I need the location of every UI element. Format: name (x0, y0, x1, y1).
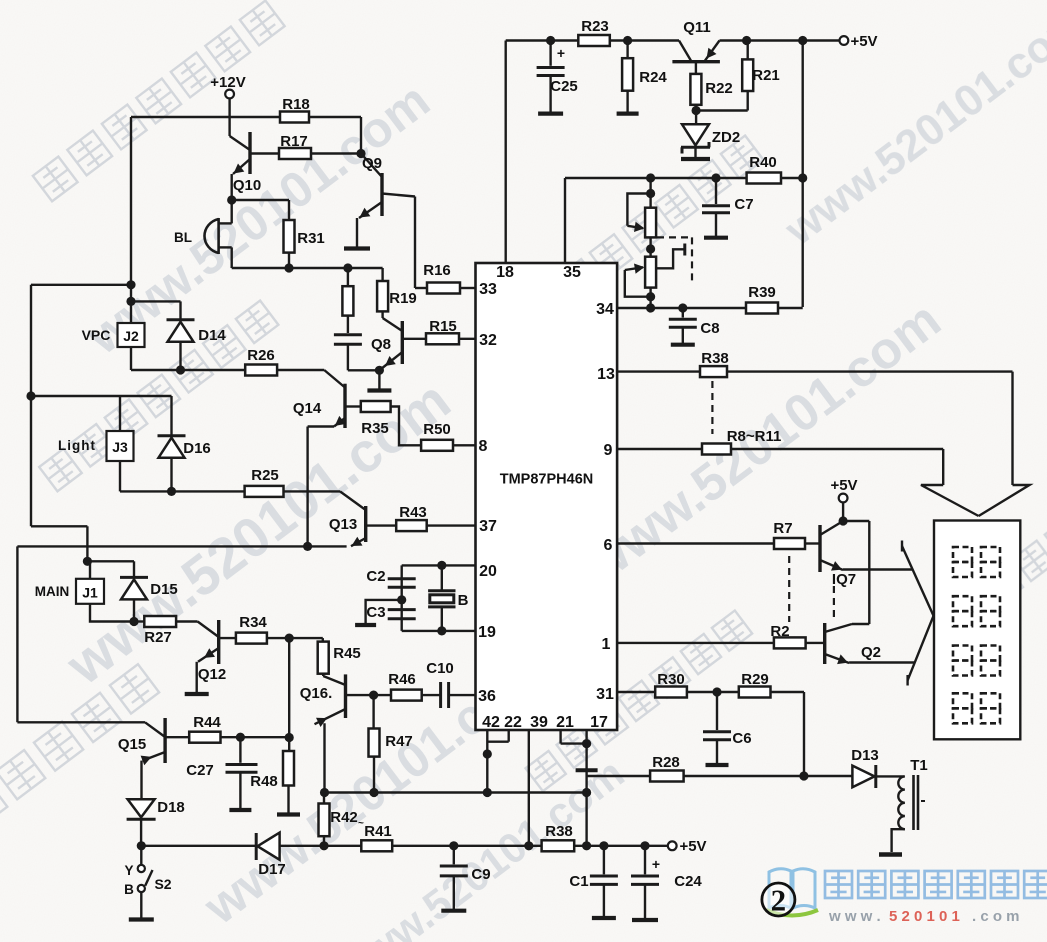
svg-text:19: 19 (478, 624, 496, 641)
resistor R2 (617, 623, 825, 648)
node R17-Q9 (356, 149, 365, 158)
svg-text:9: 9 (604, 442, 613, 459)
svg-text:ZD2: ZD2 (712, 129, 740, 146)
resistor R7 (617, 520, 820, 549)
svg-text:J3: J3 (112, 439, 128, 455)
transistor Q15 (118, 718, 189, 765)
wire mid rail 792 (320, 788, 587, 797)
pin 31 label (596, 686, 614, 703)
svg-text:~: ~ (358, 818, 364, 829)
lamp BL (174, 200, 232, 268)
svg-text:R48: R48 (250, 773, 278, 790)
arrow to display left (902, 541, 934, 686)
svg-text:R21: R21 (752, 67, 780, 84)
svg-text:J2: J2 (123, 328, 139, 344)
resistor R39 (746, 284, 803, 314)
svg-text:1: 1 (602, 636, 611, 653)
pin 17 label (590, 714, 608, 731)
svg-text:C10: C10 (426, 660, 454, 677)
wire left main vertical (126, 117, 135, 306)
transistor Q14 (293, 384, 346, 428)
svg-text:C6: C6 (732, 730, 751, 747)
svg-text:35: 35 (563, 264, 581, 281)
capacitor C10 (426, 660, 475, 708)
svg-text:20: 20 (479, 563, 497, 580)
svg-text:R41: R41 (364, 823, 392, 840)
pin 42 label (482, 714, 500, 731)
wire loop rail (17, 546, 346, 737)
wire Q9 emitter-gnd (344, 218, 370, 249)
resistor R38 pin13 (617, 350, 1012, 377)
pin 35 label (563, 264, 581, 281)
svg-text:TMP87PH46N: TMP87PH46N (500, 472, 593, 488)
svg-text:BL: BL (174, 230, 192, 245)
trimmer VR1 (627, 173, 656, 253)
display digits (953, 547, 1000, 723)
svg-text:D18: D18 (157, 799, 185, 816)
resistor R28 (650, 754, 852, 782)
svg-text:R28: R28 (652, 754, 680, 771)
resistor R29 (739, 671, 804, 776)
wire dashed R38 link (711, 381, 713, 434)
svg-text:18: 18 (496, 264, 514, 281)
wire pins21-17 (561, 730, 598, 846)
svg-text:+5V: +5V (679, 838, 706, 855)
resistor R27 (134, 616, 219, 646)
wire Light branch (26, 391, 171, 400)
wire +12V stub (228, 98, 230, 136)
svg-text:R46: R46 (388, 671, 416, 688)
pin 1 label (602, 636, 611, 653)
svg-text:Q15: Q15 (118, 736, 146, 753)
svg-text:C1: C1 (569, 873, 588, 890)
svg-text:37: 37 (479, 518, 497, 535)
transistor Q10 (230, 132, 262, 194)
svg-text:+: + (557, 45, 565, 61)
svg-text:B: B (458, 592, 469, 609)
terminal +12V (210, 74, 245, 98)
svg-text:R38: R38 (545, 823, 573, 840)
svg-text:Q10: Q10 (233, 177, 261, 194)
resistor R45 (289, 638, 361, 685)
pin 6 label (604, 537, 613, 554)
svg-text:8: 8 (479, 438, 488, 455)
svg-text:Q11: Q11 (683, 19, 711, 36)
svg-text:R8~R11: R8~R11 (727, 428, 782, 445)
trimmer VR2 (625, 244, 685, 309)
svg-text:R45: R45 (333, 645, 361, 662)
pin 18 label (496, 264, 514, 281)
capacitor C27 (186, 737, 257, 810)
capacitor C2 (366, 568, 415, 605)
node R22-ZD2 (692, 91, 748, 115)
svg-text:R50: R50 (423, 421, 451, 438)
svg-text:21: 21 (556, 714, 574, 731)
svg-text:R26: R26 (247, 347, 275, 364)
resistor R30 (617, 671, 687, 698)
svg-text:+5V: +5V (850, 33, 877, 50)
wire Q16 emitter (323, 723, 325, 792)
pin 34 label (596, 301, 614, 318)
pin 39 label (530, 714, 548, 731)
svg-text:R15: R15 (429, 318, 457, 335)
node J1 top (83, 557, 134, 566)
pin 8 label (479, 438, 488, 455)
svg-text:R18: R18 (282, 96, 310, 113)
capacitor C1 (569, 846, 617, 918)
resistor R31 (284, 220, 325, 268)
wire pin20 rail (402, 561, 476, 631)
resistor R22 (690, 62, 732, 111)
svg-text:Y: Y (124, 863, 133, 878)
pin 32 label (479, 332, 497, 349)
capacitor C9 (440, 846, 491, 911)
svg-text:22: 22 (504, 714, 522, 731)
diode D13 (851, 747, 904, 788)
svg-text:Q13: Q13 (329, 516, 357, 533)
svg-text:D15: D15 (150, 581, 178, 598)
wire pin34 rail (617, 303, 746, 312)
resistor R24 (617, 36, 668, 114)
node Q10-BL-R31 (227, 195, 289, 220)
svg-text:R27: R27 (144, 629, 172, 646)
svg-text:C2: C2 (366, 568, 385, 585)
arrow to display top (921, 485, 1029, 516)
transistor Q13 (329, 506, 366, 546)
resistor R23 (578, 18, 610, 46)
logo 520101 (762, 869, 1047, 925)
wire rail2 (565, 173, 807, 263)
svg-text:J1: J1 (82, 585, 98, 601)
svg-text:36: 36 (478, 688, 496, 705)
wire dashed driver link2 (833, 586, 835, 618)
svg-text:13: 13 (597, 366, 615, 383)
transistor Q8 (371, 311, 402, 369)
wire Q15 emitter (140, 761, 142, 800)
node R30-R29 (687, 687, 739, 696)
capacitor C6 (703, 692, 752, 765)
svg-text:VPC: VPC (82, 327, 111, 343)
diode D17 (256, 833, 361, 878)
svg-text:R44: R44 (193, 714, 221, 731)
display DS1 (934, 521, 1020, 740)
terminal +5V mid (830, 477, 857, 521)
svg-text:39: 39 (530, 714, 548, 731)
pin 21 label (556, 714, 574, 731)
switch S2 (124, 846, 172, 920)
wire right bus (802, 41, 804, 308)
terminal +5V top (798, 33, 877, 50)
wire dashed trimmer link (657, 237, 692, 284)
transistor Q12 (198, 620, 236, 683)
diode D15 (120, 561, 178, 626)
svg-text:R24: R24 (639, 69, 667, 86)
svg-text:. c o m: . c o m (972, 908, 1020, 925)
svg-text:R17: R17 (280, 133, 308, 150)
wire top-left rail (131, 117, 361, 154)
svg-text:C8: C8 (700, 320, 719, 337)
capacitor C25 (537, 36, 578, 114)
resistor R26 (245, 347, 345, 388)
resistor R16 (423, 262, 475, 294)
resistor R15 (402, 318, 475, 344)
svg-text:6: 6 (604, 537, 613, 554)
svg-text:S2: S2 (154, 876, 171, 892)
svg-text:R2: R2 (770, 623, 789, 640)
svg-text:R47: R47 (385, 733, 413, 750)
svg-text:T1: T1 (910, 757, 928, 774)
svg-text:R40: R40 (749, 154, 777, 171)
svg-text:C9: C9 (471, 866, 490, 883)
resistor R46 (374, 671, 440, 701)
pin 9 label (604, 442, 613, 459)
svg-text:34: 34 (596, 301, 614, 318)
svg-text:R42: R42 (330, 809, 358, 826)
svg-text:B: B (124, 882, 134, 897)
svg-text:42: 42 (482, 714, 500, 731)
svg-text:D16: D16 (183, 440, 211, 457)
svg-text:MAIN: MAIN (35, 584, 70, 599)
resistor R41 (361, 823, 541, 851)
svg-text:IQ7: IQ7 (832, 571, 856, 588)
wire Q10 emitter (230, 174, 232, 200)
resistor R20 (342, 268, 353, 316)
svg-text:R25: R25 (251, 467, 279, 484)
wire +5V top rail (506, 39, 840, 41)
resistor R48 (250, 738, 300, 815)
capacitor C7 (702, 173, 754, 237)
wire BL bottom rail (232, 263, 383, 281)
svg-text:R31: R31 (297, 230, 325, 247)
pin 36 label (478, 688, 496, 705)
wire Q12 emitter-gnd (185, 662, 209, 694)
svg-text:C7: C7 (734, 196, 753, 213)
svg-text:33: 33 (479, 281, 497, 298)
svg-text:R30: R30 (657, 671, 685, 688)
svg-text:C3: C3 (366, 604, 385, 621)
resistor R18 (280, 96, 310, 123)
pin 33 label (479, 281, 497, 298)
node Q8 emitter (367, 366, 391, 391)
svg-text:17: 17 (590, 714, 608, 731)
capacitor C21 (334, 316, 380, 371)
transistor Q7 (820, 516, 913, 588)
resistor R40 (747, 154, 781, 184)
svg-text:D13: D13 (851, 747, 879, 764)
resistor R50 (421, 421, 475, 451)
wire Q7-Q2 collector bus (843, 521, 869, 624)
transistor Q2 (825, 623, 915, 664)
capacitor C8 (669, 308, 720, 345)
wire pin19 rail (402, 626, 476, 635)
crystal B (428, 565, 468, 631)
transistor Q16 (300, 674, 374, 727)
svg-text:31: 31 (596, 686, 614, 703)
svg-text:R43: R43 (399, 504, 427, 521)
svg-text:Q2: Q2 (861, 644, 881, 661)
svg-text:R7: R7 (773, 520, 792, 537)
svg-text:Light: Light (58, 438, 96, 453)
svg-text:R23: R23 (581, 18, 609, 35)
svg-text:Q8: Q8 (371, 336, 391, 353)
resistor R17 (251, 133, 361, 159)
capacitor C24 (631, 846, 702, 920)
pin 37 label (479, 518, 497, 535)
svg-text:Q16.: Q16. (300, 685, 333, 702)
svg-text:32: 32 (479, 332, 497, 349)
pin 22 label (504, 714, 522, 731)
zener ZD2 (681, 111, 740, 160)
resistor R8~R11 (617, 428, 943, 455)
pin 20 label (479, 563, 497, 580)
resistor R44 (189, 714, 289, 743)
svg-text:5 2 0 1 0 1: 5 2 0 1 0 1 (889, 908, 960, 925)
svg-text:w w w .: w w w . (828, 908, 881, 925)
wire R28 rail (587, 775, 651, 777)
connector J3 Light (58, 396, 134, 491)
svg-text:R35: R35 (361, 420, 389, 437)
wire Q9 collector (415, 197, 427, 289)
pin 13 label (597, 366, 615, 383)
transistor Q11 (672, 19, 720, 62)
connector J2 VPC (82, 301, 145, 370)
svg-text:Q9: Q9 (362, 155, 382, 172)
transformer T1 (879, 757, 928, 855)
terminal +5V bottom (668, 838, 707, 855)
wire VPC branch (31, 285, 131, 562)
svg-text:+12V: +12V (210, 74, 245, 91)
resistor R19 (377, 281, 417, 311)
svg-text:Q14: Q14 (293, 400, 322, 417)
svg-text:R34: R34 (239, 614, 267, 631)
pin 19 label (478, 624, 496, 641)
wire R34-R44 vertical (285, 634, 294, 743)
wire dashed driver link1 (788, 556, 790, 622)
IC U1 TMP87PH46N (476, 263, 618, 730)
diode D18 (127, 799, 185, 850)
svg-text:2: 2 (771, 883, 787, 918)
wire R25 rail (120, 487, 245, 496)
svg-text:R16: R16 (423, 262, 451, 279)
svg-text:R22: R22 (705, 80, 733, 97)
svg-text:C27: C27 (186, 762, 214, 779)
svg-text:R19: R19 (389, 290, 417, 307)
wire pin39 (528, 730, 530, 846)
resistor R47 (369, 695, 413, 792)
resistor R35 (345, 401, 421, 445)
diode D14 (131, 301, 226, 370)
resistor R34 (236, 614, 289, 644)
wire pins42-22 (483, 730, 509, 793)
wire pin18 feed (505, 41, 507, 264)
svg-text:R39: R39 (748, 284, 776, 301)
svg-text:C25: C25 (550, 78, 578, 95)
resistor R21 (742, 36, 780, 91)
svg-text:D17: D17 (258, 861, 286, 878)
svg-text:+5V: +5V (830, 477, 857, 494)
resistor R42 (319, 793, 365, 847)
capacitor C3 (355, 600, 416, 625)
svg-text:C24: C24 (674, 873, 702, 890)
wire arrow shafts (943, 372, 1012, 485)
diode D16 (158, 396, 211, 491)
wire Q14 emitter (303, 427, 312, 552)
node Q16 base (369, 691, 378, 700)
wire bottom rail left (142, 845, 257, 847)
resistor R25 (245, 467, 366, 510)
resistor R38 bottom (542, 823, 668, 851)
connector J1 MAIN (35, 561, 134, 621)
wire R26 rail (131, 365, 245, 374)
svg-text:D14: D14 (198, 327, 226, 344)
transistor Q9 (359, 154, 415, 219)
svg-text:R29: R29 (741, 671, 769, 688)
svg-text:+: + (652, 856, 660, 872)
svg-text:Q12: Q12 (198, 666, 226, 683)
resistor R43 (366, 504, 476, 531)
svg-text:R38: R38 (701, 350, 729, 367)
